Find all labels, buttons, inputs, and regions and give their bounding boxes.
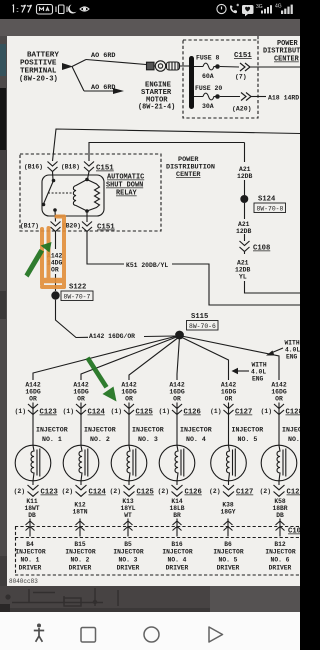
wire A21 upper segment bbox=[244, 143, 246, 163]
PCM cavity B12 labels bbox=[265, 541, 295, 572]
splice S124 bbox=[240, 195, 248, 203]
svg-text:60A: 60A bbox=[202, 73, 214, 80]
svg-text:FUSE 20: FUSE 20 bbox=[195, 85, 222, 92]
wire loop to relay coil B18 / A21 feed bbox=[89, 143, 245, 162]
wire col2 bbox=[80, 403, 82, 446]
PCM pin arrow col4 bbox=[173, 521, 182, 531]
svg-text:K14: K14 bbox=[171, 498, 183, 505]
svg-text:ENG: ENG bbox=[252, 376, 264, 383]
wire into PCM col1 bbox=[29, 519, 31, 537]
wire into PCM col4 bbox=[176, 519, 178, 537]
SECTION-FANOUT bbox=[33, 313, 300, 383]
connector C124 bottom bbox=[76, 485, 87, 496]
data saver circle icon bbox=[217, 4, 226, 13]
svg-text:AUTOMATIC: AUTOMATIC bbox=[107, 174, 144, 182]
SECTION-COLUMNS bbox=[14, 382, 68, 572]
connector C127 top bbox=[224, 404, 234, 415]
svg-text:AO 6RD: AO 6RD bbox=[91, 84, 115, 92]
svg-text:K38: K38 bbox=[222, 502, 234, 509]
svg-text:NO. 1: NO. 1 bbox=[21, 557, 40, 564]
fan wire to injector 2 bbox=[81, 336, 179, 380]
svg-text:(2): (2) bbox=[110, 488, 121, 495]
wire into PCM col6 bbox=[279, 519, 281, 537]
coil node top bbox=[85, 178, 89, 182]
wire A142 exits right bbox=[250, 66, 300, 68]
wifi calling phone icon bbox=[230, 5, 237, 13]
svg-text:12DB: 12DB bbox=[237, 173, 253, 180]
svg-text:C125: C125 bbox=[137, 489, 154, 497]
svg-text:DRIVER: DRIVER bbox=[117, 565, 140, 572]
svg-text:C127: C127 bbox=[236, 489, 253, 497]
svg-text:(1): (1) bbox=[63, 408, 74, 415]
status bar bbox=[0, 0, 300, 19]
PCM pin arrow col5 bbox=[224, 521, 233, 531]
svg-text:WITH: WITH bbox=[285, 340, 300, 347]
svg-text:(B18): (B18) bbox=[61, 164, 80, 171]
svg-text:8040cc83: 8040cc83 bbox=[9, 578, 38, 585]
SECTION-S122 bbox=[47, 232, 175, 341]
heart message icon bbox=[242, 5, 254, 16]
svg-text:INJECTOR: INJECTOR bbox=[213, 549, 243, 556]
svg-text:A142: A142 bbox=[169, 382, 185, 389]
label A142 16DG OR col4 bbox=[169, 382, 185, 403]
svg-text:INJECTOR: INJECTOR bbox=[84, 427, 116, 434]
svg-text:C151: C151 bbox=[234, 52, 252, 60]
label A21 12DB YL bbox=[235, 260, 251, 281]
white schematic page bbox=[7, 36, 300, 586]
connector C124 top bbox=[76, 404, 86, 415]
svg-text:A18 14RD.: A18 14RD. bbox=[268, 95, 300, 102]
wire to A18 label bbox=[251, 96, 266, 98]
svg-text:18BR: 18BR bbox=[272, 505, 287, 512]
PCM cavity B15 labels bbox=[65, 541, 95, 572]
orange highlight box around A142 wire bbox=[42, 217, 64, 288]
green arrow pointing at C124 bbox=[86, 357, 117, 402]
svg-text:C128: C128 bbox=[286, 409, 301, 417]
svg-text:18LB: 18LB bbox=[169, 505, 184, 512]
svg-text:ENG: ENG bbox=[286, 354, 298, 361]
svg-text:(1): (1) bbox=[210, 408, 221, 415]
svg-text:INJECTOR: INJECTOR bbox=[180, 427, 212, 434]
svg-text:16DG: 16DG bbox=[73, 389, 89, 396]
wire into PCM col5 bbox=[227, 519, 229, 537]
svg-text:INJECTOR: INJECTOR bbox=[232, 427, 264, 434]
wire col4 lower bbox=[176, 481, 178, 485]
svg-text:18GY: 18GY bbox=[220, 509, 235, 516]
svg-text:INJECTOR: INJECTOR bbox=[15, 549, 45, 556]
svg-text:16DG: 16DG bbox=[271, 389, 287, 396]
svg-text:OR: OR bbox=[77, 396, 85, 403]
svg-text:K58: K58 bbox=[274, 498, 286, 505]
wire A0 6RD lower bbox=[84, 90, 113, 92]
pin stubs out of relay bbox=[55, 210, 87, 222]
wire bbox=[244, 180, 246, 195]
svg-text:A21: A21 bbox=[237, 260, 249, 267]
pin B18 connector bbox=[84, 162, 94, 172]
injector no. 4 bbox=[159, 445, 195, 481]
label box 8W-70-7 bbox=[61, 291, 93, 301]
svg-text:30A: 30A bbox=[202, 103, 214, 110]
label A142 16DG OR col3 bbox=[121, 382, 137, 403]
svg-text:C151: C151 bbox=[97, 224, 115, 232]
svg-text:18WT: 18WT bbox=[24, 505, 39, 512]
svg-text:INJECTOR: INJECTOR bbox=[65, 549, 95, 556]
wire col5 lower bbox=[228, 481, 230, 485]
svg-text:DRIVER: DRIVER bbox=[166, 565, 189, 572]
wire col3 bbox=[128, 403, 130, 446]
svg-text:8W-70-6: 8W-70-6 bbox=[189, 323, 216, 330]
PCM pin arrow col2 bbox=[76, 521, 85, 531]
power distribution center label (top right) bbox=[263, 40, 300, 64]
coil winding bbox=[73, 180, 87, 212]
svg-text:C124: C124 bbox=[88, 409, 106, 417]
moon icon bbox=[68, 5, 76, 14]
bus bar bbox=[189, 56, 194, 109]
svg-text:(2): (2) bbox=[209, 488, 220, 495]
svg-text:C124: C124 bbox=[89, 489, 107, 497]
svg-text:(1): (1) bbox=[261, 408, 272, 415]
svg-text:3G: 3G bbox=[256, 4, 263, 10]
svg-text:12DB: 12DB bbox=[236, 228, 252, 235]
wire col2 lower bbox=[80, 481, 82, 485]
svg-text:OR: OR bbox=[51, 267, 59, 274]
svg-text:A21: A21 bbox=[238, 221, 250, 228]
svg-text:SHUT DOWN: SHUT DOWN bbox=[106, 182, 143, 190]
PCM pin arrow col3 bbox=[124, 521, 133, 531]
battery arrow bbox=[62, 63, 73, 70]
svg-text:(B17): (B17) bbox=[20, 223, 39, 230]
wire bbox=[244, 203, 246, 219]
svg-text:C151: C151 bbox=[96, 165, 114, 173]
svg-text:B15: B15 bbox=[74, 541, 86, 548]
svg-text:4G: 4G bbox=[275, 4, 282, 10]
PCM pin arrow col6 bbox=[276, 521, 285, 531]
boxed icon bbox=[37, 5, 53, 15]
svg-text:C128: C128 bbox=[287, 489, 301, 497]
svg-text:DB: DB bbox=[276, 512, 284, 519]
svg-text:DRIVER: DRIVER bbox=[269, 565, 292, 572]
connector C128 top bbox=[274, 404, 284, 415]
connector C125 bottom bbox=[124, 485, 135, 496]
wire bbox=[244, 234, 246, 241]
svg-text:A142: A142 bbox=[73, 382, 89, 389]
svg-text:(1): (1) bbox=[15, 408, 26, 415]
home circle icon bbox=[144, 627, 159, 642]
svg-text:C126: C126 bbox=[184, 409, 201, 417]
fan wire to injector 4 bbox=[177, 337, 180, 380]
svg-text:CENTER: CENTER bbox=[274, 56, 300, 64]
fuse 8 output wire to C151 bbox=[220, 66, 239, 69]
label A142 16DG OR col6 bbox=[271, 382, 287, 403]
fan wire to injector 3 bbox=[129, 337, 179, 380]
svg-text:C123: C123 bbox=[41, 489, 58, 497]
svg-text:8W-70-7: 8W-70-7 bbox=[64, 294, 91, 301]
svg-text:DRIVER: DRIVER bbox=[217, 565, 240, 572]
label A142 16DG OR col1 bbox=[25, 382, 41, 403]
eye icon bbox=[80, 7, 89, 11]
svg-text:C126: C126 bbox=[185, 489, 202, 497]
svg-text:12DB: 12DB bbox=[235, 267, 251, 274]
svg-text:OR: OR bbox=[275, 396, 283, 403]
label WITH 4.0L ENG (branch 5) bbox=[251, 362, 267, 383]
power distribution center label (middle) bbox=[166, 156, 215, 179]
fan wire to injector 6 bbox=[182, 336, 280, 380]
fuse 8 bbox=[194, 63, 216, 70]
svg-text:YL: YL bbox=[239, 274, 247, 281]
SECTION-LOOPS bbox=[53, 129, 301, 161]
wire col3 lower bbox=[128, 481, 130, 485]
svg-text:A142 16DG/OR: A142 16DG/OR bbox=[89, 333, 135, 340]
wire col6 lower bbox=[278, 481, 280, 485]
svg-text:DISTRIBUT: DISTRIBUT bbox=[263, 48, 300, 56]
svg-text:B12: B12 bbox=[274, 541, 286, 548]
PCM box dashed bottom bbox=[15, 574, 300, 576]
pin B20 connector bbox=[82, 222, 92, 232]
svg-text:NO. 2: NO. 2 bbox=[71, 557, 90, 564]
switch contact bbox=[52, 179, 56, 183]
svg-text:WT: WT bbox=[124, 512, 132, 519]
svg-text:AO 6RD: AO 6RD bbox=[91, 52, 115, 60]
parallel resistor bbox=[87, 180, 100, 212]
label K58 18BR DB bbox=[272, 498, 287, 519]
svg-text:(B16): (B16) bbox=[24, 164, 43, 171]
green arrow pointing at A142 wire bbox=[25, 242, 52, 278]
fuse 20 bbox=[194, 93, 216, 100]
svg-text:C10: C10 bbox=[288, 528, 300, 536]
svg-text:INJECTOR: INJECTOR bbox=[162, 549, 192, 556]
svg-text:NO. 5: NO. 5 bbox=[238, 436, 258, 443]
accessibility person icon bbox=[34, 624, 44, 642]
svg-text:OR: OR bbox=[173, 396, 181, 403]
svg-text:INJECTOR: INJECTOR bbox=[282, 427, 300, 434]
arrow to starter motor bbox=[113, 88, 124, 94]
svg-text:B4: B4 bbox=[26, 541, 34, 548]
svg-text:S115: S115 bbox=[191, 313, 208, 321]
fuse 20 output wire bbox=[220, 96, 240, 98]
svg-text:(1): (1) bbox=[111, 408, 122, 415]
label K38 18GY bbox=[220, 502, 235, 516]
svg-text:INJECTOR: INJECTOR bbox=[132, 427, 164, 434]
svg-text:S124: S124 bbox=[258, 196, 276, 204]
svg-text:B6: B6 bbox=[224, 541, 232, 548]
wire A21 exits right bbox=[245, 281, 301, 293]
label box 8W-70-6 bbox=[187, 321, 219, 331]
wire col1 lower bbox=[32, 481, 34, 485]
injector no. 5 bbox=[211, 445, 247, 481]
wire loop to relay B16 (exits right edge) bbox=[53, 129, 301, 161]
wire A0 6RD top bbox=[86, 60, 146, 65]
svg-text:(2): (2) bbox=[260, 488, 271, 495]
splice S115 bbox=[175, 331, 184, 340]
svg-text:B5: B5 bbox=[124, 541, 132, 548]
SECTION-FUSEBOX bbox=[183, 36, 303, 118]
svg-text:OR: OR bbox=[225, 396, 233, 403]
svg-text:(2): (2) bbox=[14, 488, 25, 495]
arrow to 4.0L branch 6 bbox=[271, 348, 283, 353]
svg-text:(A20): (A20) bbox=[232, 106, 252, 113]
wire B17 down with label gap bbox=[55, 232, 57, 292]
arrow to 4.0L branch 5 bbox=[237, 370, 249, 372]
clock arabic digits bbox=[13, 5, 32, 13]
connector C126 bottom bbox=[172, 485, 183, 496]
injector no. 3 bbox=[111, 445, 147, 481]
label K14 18LB BR bbox=[169, 498, 184, 519]
PCM cavity B16 labels bbox=[162, 541, 192, 572]
svg-text:A21: A21 bbox=[239, 166, 251, 173]
recents square icon bbox=[81, 628, 96, 643]
svg-text:16DG: 16DG bbox=[169, 389, 185, 396]
svg-text:(8W-20-3): (8W-20-3) bbox=[19, 76, 58, 84]
connector C151 (7) bbox=[240, 63, 250, 71]
PCM box dashed left bbox=[15, 527, 17, 576]
dim strip below page bbox=[0, 586, 300, 612]
svg-text:INJECTOR: INJECTOR bbox=[36, 427, 68, 434]
wire into PCM col3 bbox=[127, 519, 129, 537]
svg-text:BR: BR bbox=[173, 512, 181, 519]
wire battery split bbox=[72, 60, 86, 92]
svg-text:C123: C123 bbox=[40, 409, 57, 417]
label WITH 4.0L ENG (right edge) bbox=[285, 340, 301, 361]
relay dashed enclosure bbox=[20, 154, 161, 231]
wire col1 bbox=[32, 403, 34, 446]
svg-text:A142: A142 bbox=[25, 382, 41, 389]
svg-text:DB: DB bbox=[28, 512, 36, 519]
label box 8W-70-8 bbox=[254, 203, 286, 213]
in-line connector grommet on battery feed bbox=[147, 61, 190, 71]
connector C123 bottom bbox=[28, 485, 39, 496]
connector C125 top bbox=[124, 404, 134, 415]
svg-text:NO. 5: NO. 5 bbox=[219, 557, 238, 564]
svg-text:4.0L: 4.0L bbox=[285, 347, 300, 354]
SECTION-TOPLEFT bbox=[19, 52, 189, 112]
svg-text:NO. 4: NO. 4 bbox=[168, 557, 187, 564]
PCM box dashed top bbox=[15, 537, 300, 539]
svg-text:INJECTOR: INJECTOR bbox=[265, 549, 295, 556]
left dark strip bbox=[0, 36, 7, 586]
pin B16 connector bbox=[48, 162, 58, 172]
svg-text:C125: C125 bbox=[136, 409, 153, 417]
connector C126 top bbox=[172, 404, 182, 415]
svg-text:16DG: 16DG bbox=[25, 389, 41, 396]
label A21 12DB bbox=[236, 221, 252, 235]
vibrate icon bbox=[59, 5, 65, 14]
svg-text:(2): (2) bbox=[158, 488, 169, 495]
connector C108 bbox=[240, 241, 250, 252]
svg-text:B16: B16 bbox=[171, 541, 183, 548]
coil node bottom bbox=[85, 209, 89, 213]
label K12 18TN bbox=[72, 502, 87, 516]
svg-text:INJECTOR: INJECTOR bbox=[113, 549, 143, 556]
svg-text:8W-70-8: 8W-70-8 bbox=[257, 206, 284, 213]
svg-text:4.0L: 4.0L bbox=[251, 369, 266, 376]
navigation bar bbox=[0, 612, 300, 650]
svg-text:NO. 2: NO. 2 bbox=[90, 436, 110, 443]
svg-text:NO. 4: NO. 4 bbox=[186, 436, 206, 443]
gray band above photo bbox=[0, 19, 300, 37]
svg-text:K51 20DB/YL: K51 20DB/YL bbox=[126, 262, 168, 269]
label A142 14DG OR bbox=[47, 253, 63, 274]
svg-text:NO. 6: NO. 6 bbox=[271, 557, 290, 564]
PCM connector dashed line upper bbox=[15, 526, 300, 528]
svg-text:(8W-21-4): (8W-21-4) bbox=[138, 104, 175, 112]
connector C151 (A20) bbox=[241, 93, 251, 101]
wire col5 bbox=[228, 403, 230, 446]
label K13 18YL WT bbox=[120, 498, 135, 519]
wire K51 from relay bbox=[87, 232, 300, 306]
wire into PCM col2 bbox=[79, 519, 81, 537]
svg-text:C108: C108 bbox=[253, 245, 270, 253]
svg-text:TERMINAL: TERMINAL bbox=[20, 68, 57, 76]
svg-text:DRIVER: DRIVER bbox=[69, 565, 92, 572]
injector no. 2 bbox=[63, 445, 99, 481]
wire S122 to S115 bbox=[56, 300, 176, 338]
label A142 16DG OR col5 bbox=[221, 382, 237, 403]
injector no. 6 bbox=[261, 445, 297, 481]
PCM cavity B6 labels bbox=[213, 541, 243, 572]
pin stubs into relay bbox=[53, 172, 90, 181]
svg-text:CENTER: CENTER bbox=[176, 171, 201, 179]
label K11 18WT DB bbox=[24, 498, 39, 519]
svg-text:(2): (2) bbox=[62, 488, 73, 495]
svg-text:FUSE 8: FUSE 8 bbox=[196, 55, 220, 62]
svg-text:18TN: 18TN bbox=[72, 509, 87, 516]
PCM cavity B4 labels bbox=[15, 541, 45, 572]
SECTION-ANNOT bbox=[25, 217, 117, 402]
svg-text:WITH: WITH bbox=[252, 362, 267, 369]
svg-text:NO. 3: NO. 3 bbox=[138, 436, 158, 443]
svg-text:S122: S122 bbox=[69, 284, 86, 292]
injector no. 1 bbox=[15, 445, 51, 481]
svg-text:NO. 3: NO. 3 bbox=[119, 557, 138, 564]
svg-text:BATTERY: BATTERY bbox=[27, 52, 59, 60]
power distribution center dashed box (fuses) bbox=[183, 40, 258, 118]
wire col6 bbox=[278, 403, 280, 446]
svg-text:A142: A142 bbox=[271, 382, 287, 389]
svg-text:RELAY: RELAY bbox=[116, 190, 138, 198]
fan wire to injector 1 bbox=[33, 336, 179, 381]
SECTION-RELAY bbox=[20, 154, 161, 232]
relay body bbox=[42, 175, 104, 216]
PCM cavity B5 labels bbox=[113, 541, 143, 572]
label A21 12DB bbox=[237, 166, 253, 180]
connector C127 bottom bbox=[223, 485, 234, 496]
svg-text:OR: OR bbox=[125, 396, 133, 403]
svg-text:A142: A142 bbox=[221, 382, 237, 389]
svg-text:(7): (7) bbox=[235, 74, 247, 81]
label A142 16DG OR col2 bbox=[73, 382, 89, 403]
splice S122 bbox=[51, 291, 59, 299]
SECTION-RIGHTWIRES bbox=[87, 143, 300, 306]
svg-text:16DG: 16DG bbox=[121, 389, 137, 396]
svg-text:OR: OR bbox=[29, 396, 37, 403]
svg-text:K11: K11 bbox=[26, 498, 38, 505]
back triangle icon bbox=[209, 627, 223, 642]
svg-text:NO. 6: NO. 6 bbox=[288, 436, 300, 443]
svg-text:K12: K12 bbox=[74, 502, 86, 509]
automatic shut down relay label bbox=[106, 174, 144, 198]
svg-text:C127: C127 bbox=[235, 409, 252, 417]
svg-text:DRIVER: DRIVER bbox=[19, 565, 42, 572]
svg-text:NO. 1: NO. 1 bbox=[42, 436, 62, 443]
fan wire to injector 5 bbox=[181, 337, 229, 380]
SECTION-PCM bbox=[9, 527, 301, 586]
svg-text:18YL: 18YL bbox=[120, 505, 135, 512]
svg-text:POSITIVE: POSITIVE bbox=[20, 60, 57, 68]
pin B17 connector bbox=[51, 222, 61, 232]
svg-text:(1): (1) bbox=[159, 408, 170, 415]
wire col4 bbox=[176, 403, 178, 446]
PCM pin arrow col1 bbox=[26, 521, 35, 531]
